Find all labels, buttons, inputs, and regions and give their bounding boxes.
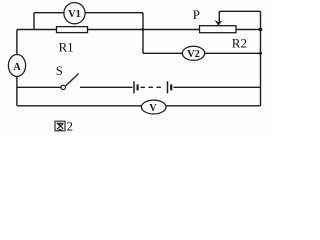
wire left rail vertical	[16, 30, 18, 106]
battery cell 2 positive plate	[167, 81, 169, 93]
svg-text:R2: R2	[232, 36, 247, 51]
svg-text:V: V	[149, 103, 157, 114]
battery cell 1 negative plate	[137, 84, 139, 90]
svg-text:S: S	[56, 64, 63, 78]
rheostat R2 body	[200, 26, 237, 33]
battery cell 1 positive plate	[133, 81, 135, 93]
svg-text:A: A	[13, 62, 21, 73]
switch S pivot	[61, 85, 65, 89]
junction dot V2 right at rail	[259, 52, 262, 55]
voltmeter V1	[64, 3, 85, 24]
wire switch row left segment	[17, 86, 61, 88]
wire switch row right segment	[80, 86, 133, 88]
svg-text:2: 2	[67, 119, 74, 134]
wire right vertical from V1 branch through main wire to V2 branch	[142, 13, 144, 54]
ammeter A	[8, 55, 25, 77]
wire left vertical from V1 branch to main wire	[33, 13, 35, 30]
wire dashed between battery cells	[141, 86, 164, 88]
svg-text:P: P	[193, 7, 200, 22]
rheostat slider arrow P	[214, 11, 222, 25]
wire V2 branch horizontal	[143, 52, 261, 54]
wire top V1 branch horizontal	[34, 12, 143, 14]
caption 图2 figure label	[55, 121, 65, 131]
wire top P branch horizontal	[219, 10, 260, 12]
wire main row horizontal	[17, 29, 261, 31]
wire bottom row horizontal	[17, 105, 261, 107]
svg-text:R1: R1	[59, 39, 74, 54]
wire right rail vertical	[260, 11, 262, 106]
wire battery to right rail	[174, 86, 261, 88]
junction dot V1/V2 tap at main wire	[142, 28, 145, 31]
voltmeter V	[141, 100, 166, 114]
junction dot R2 right at rail	[259, 28, 263, 32]
voltmeter V2	[182, 46, 204, 60]
battery cell 2 negative plate	[170, 84, 172, 90]
switch S lever	[66, 74, 79, 86]
resistor R1	[57, 27, 88, 33]
svg-text:V2: V2	[187, 49, 200, 60]
svg-text:V1: V1	[68, 9, 81, 20]
